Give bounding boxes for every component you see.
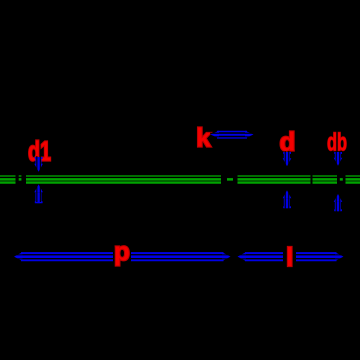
svg-text:k: k — [196, 122, 211, 152]
dimension d1 upper arrow — [34, 156, 43, 172]
dimension k horizontal double arrow — [210, 131, 255, 139]
svg-text:l: l — [286, 242, 293, 272]
wire: centerline top stripe — [0, 175, 360, 177]
dimension l bottom band — [238, 252, 344, 261]
centerline (green dash-dot axis band) — [0, 176, 360, 183]
bottom band black seams — [10, 254, 348, 255]
dimension d lower arrow — [283, 190, 292, 208]
wire: centerline bottom stripe — [0, 181, 360, 183]
wire: centerline middle stripe — [0, 178, 360, 181]
dimension d1 lower arrow — [34, 184, 43, 203]
svg-text:p: p — [114, 236, 130, 266]
dimension p bottom band — [14, 252, 231, 261]
dimension db upper arrow — [334, 151, 343, 167]
dimension db lower arrow — [334, 194, 343, 212]
dimension d upper arrow — [283, 151, 292, 167]
